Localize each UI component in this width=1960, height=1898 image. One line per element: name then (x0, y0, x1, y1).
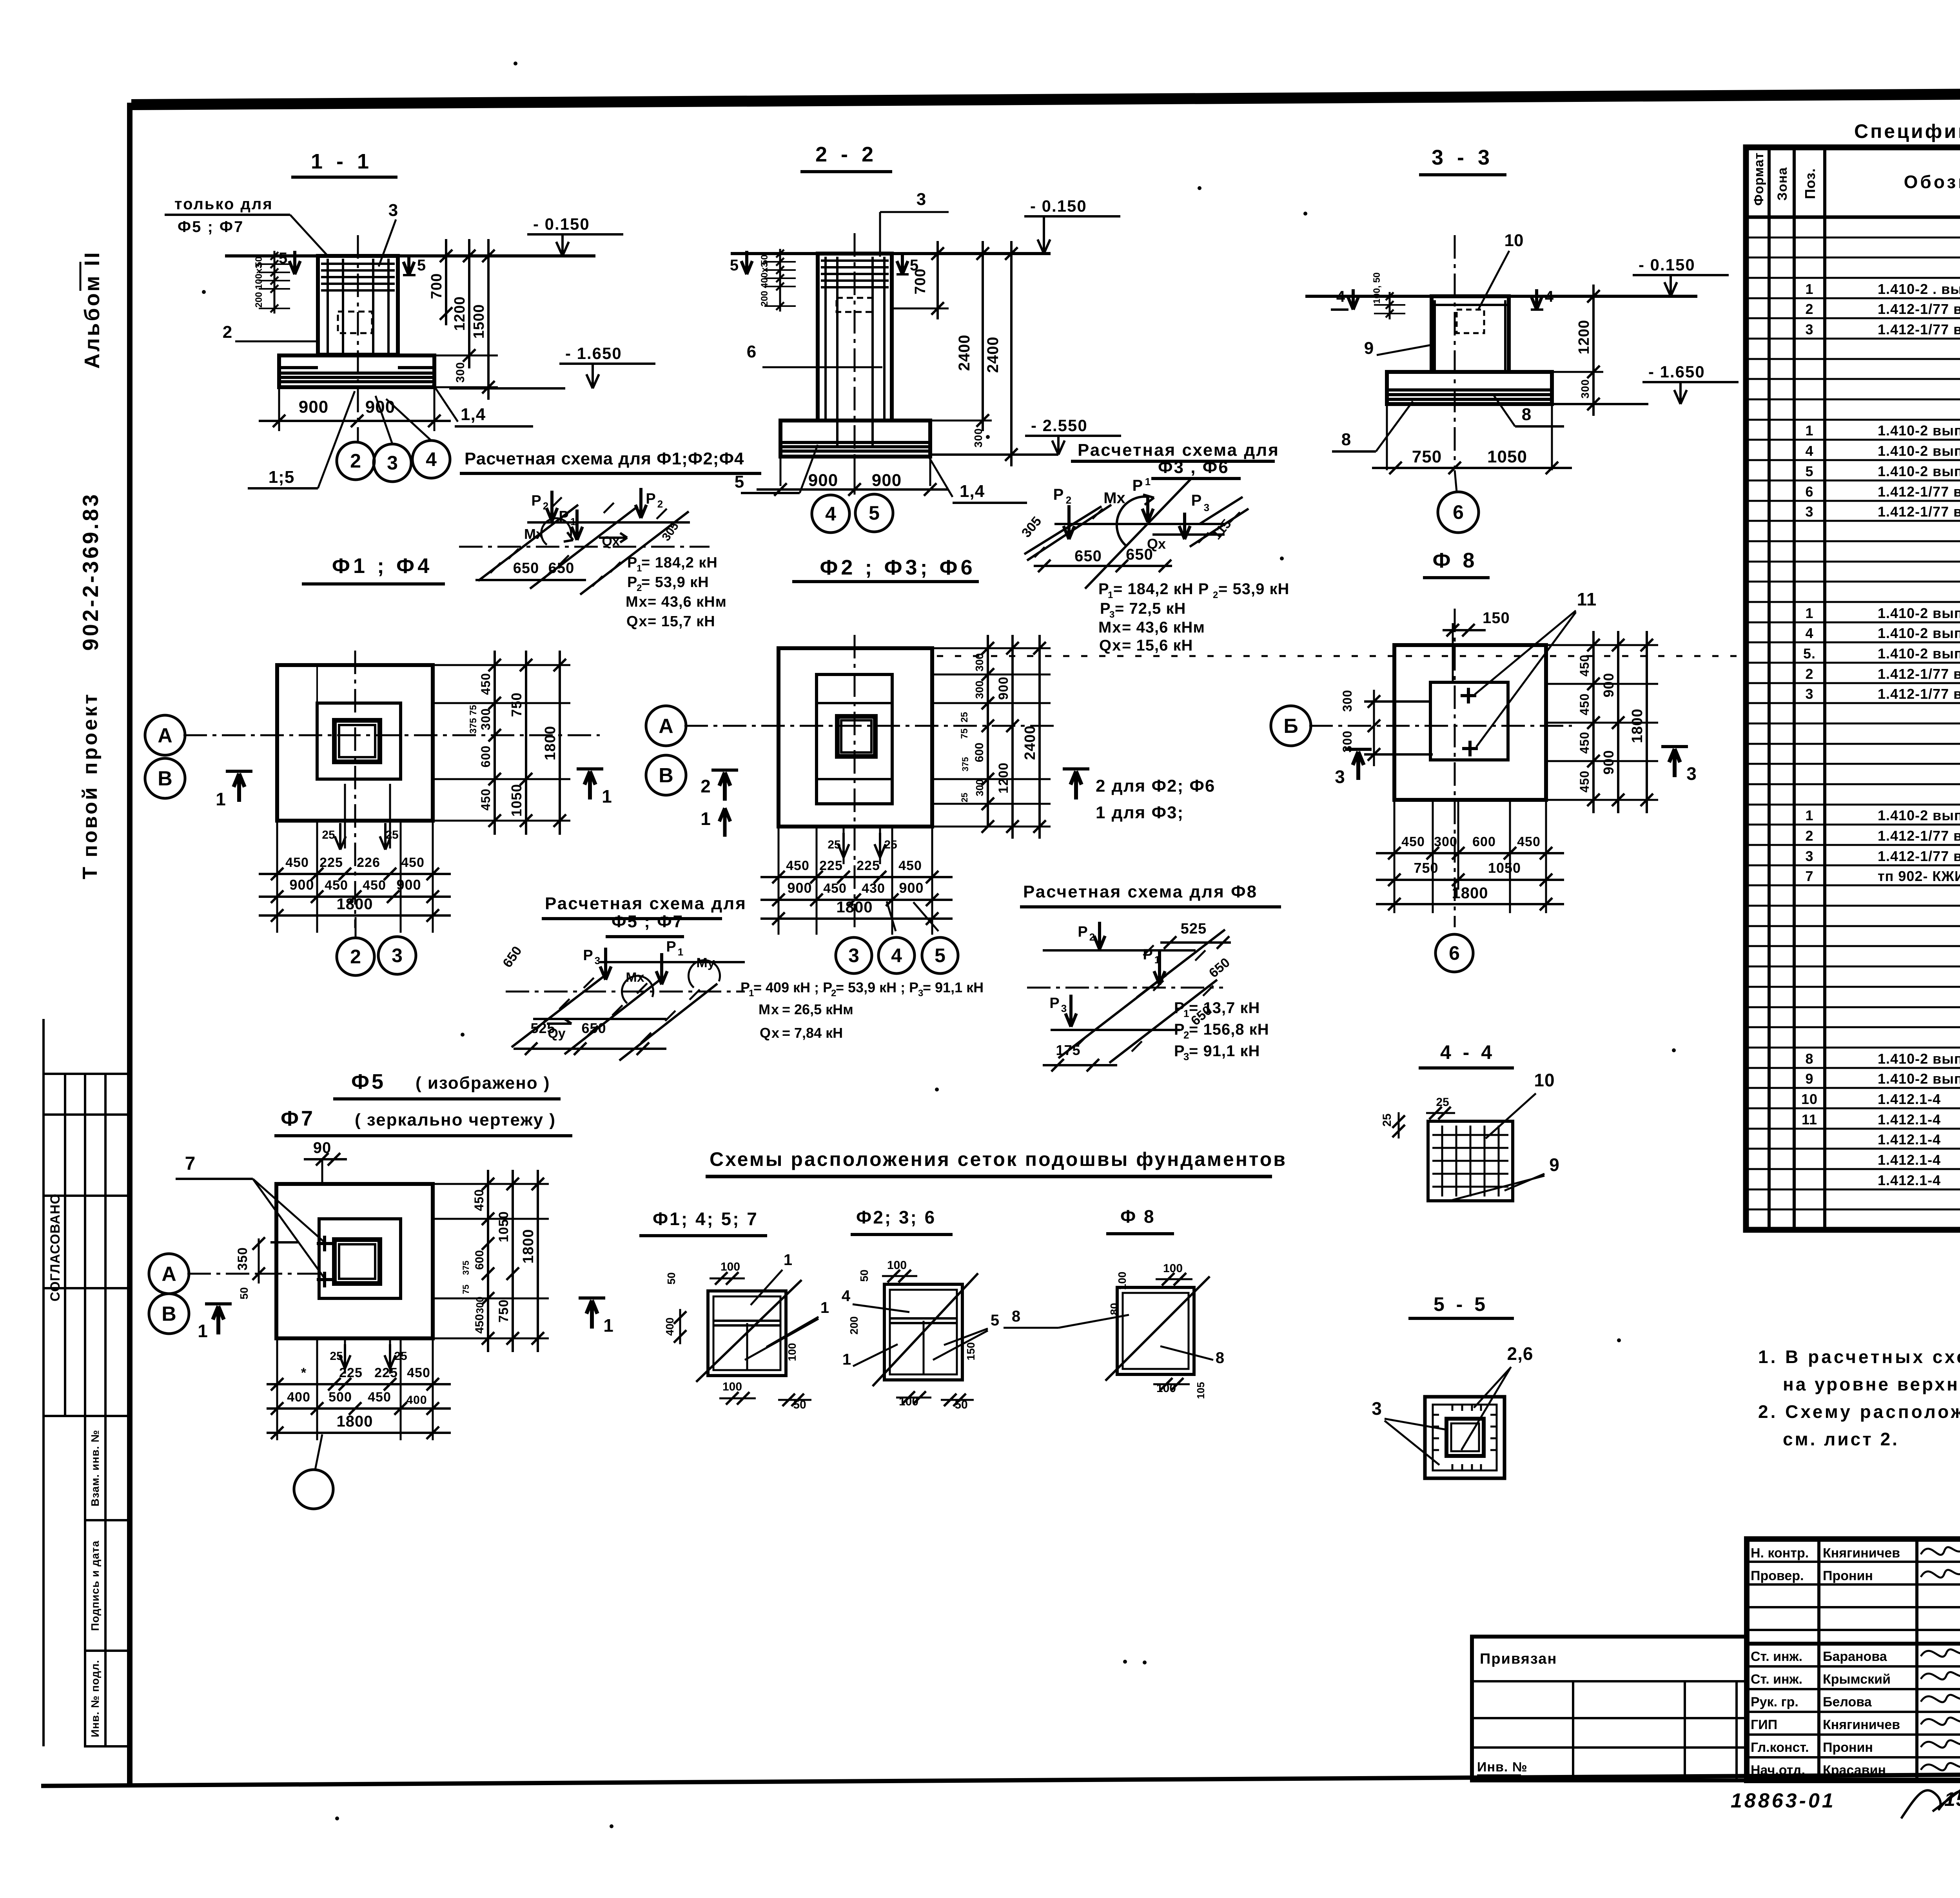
svg-text:225: 225 (374, 1365, 398, 1380)
svg-text:Р: Р (646, 491, 655, 507)
section 1-1 ref circles 2 3 4 (337, 442, 374, 480)
section 2-2 footing rebar band (782, 441, 929, 444)
svg-text:9: 9 (1364, 339, 1374, 358)
svg-text:25: 25 (322, 828, 335, 841)
svg-text:- 1.650: - 1.650 (1648, 363, 1705, 381)
svg-text:400х3: 400х3 (759, 262, 770, 288)
svg-text:525: 525 (1181, 921, 1207, 937)
svg-text:18863-01: 18863-01 (1731, 1789, 1836, 1812)
svg-text:10: 10 (1534, 1070, 1555, 1090)
svg-text:650: 650 (581, 1020, 606, 1036)
section 1-1 anchor dashed box (338, 312, 372, 333)
svg-text:2: 2 (701, 776, 711, 796)
plan F8 anchor crosses (1467, 688, 1470, 703)
svg-text:Р: Р (1191, 492, 1202, 509)
title block left row lines lower (1747, 1665, 1960, 1668)
svg-text:Расчетная схема для: Расчетная схема для (1078, 441, 1279, 460)
mesh scheme F1 4 5 7 square (708, 1291, 786, 1376)
svg-text:1.412.1-4: 1.412.1-4 (1878, 1111, 1941, 1128)
plan F2 F3 F6 bottom dim chain 3 (760, 917, 953, 920)
section 1-1 right dim chain 700 (445, 239, 447, 325)
svg-text:3: 3 (1805, 686, 1813, 702)
svg-text:1 для Ф3;: 1 для Ф3; (1096, 803, 1184, 822)
svg-text:1.412-1/77 вып.3: 1.412-1/77 вып.3 (1878, 848, 1960, 864)
section 3-3 ref circle 6 (1438, 492, 1479, 533)
section 2-2 right dim chain 2400 b (1010, 241, 1013, 466)
svg-text:- 0.150: - 0.150 (533, 215, 590, 233)
svg-text:300: 300 (973, 653, 985, 672)
svg-text:Белова: Белова (1823, 1695, 1872, 1709)
svg-text:11: 11 (1577, 589, 1597, 609)
privyazan block rows (1472, 1680, 1747, 1682)
calc scheme 1 axon lines (527, 521, 690, 524)
plan F2 F3 F6 vertical centre line (854, 635, 856, 930)
svg-text:3: 3 (595, 955, 600, 966)
svg-text:Ф2 ; Ф3; Ф6: Ф2 ; Ф3; Ф6 (820, 556, 975, 579)
svg-text:ГИП: ГИП (1751, 1717, 1777, 1732)
svg-text:175: 175 (1056, 1042, 1080, 1058)
svg-text:450: 450 (368, 1390, 391, 1405)
svg-text:525: 525 (530, 1020, 555, 1036)
svg-text:Мх: Мх (759, 1001, 780, 1017)
svg-text:450: 450 (823, 881, 847, 896)
svg-text:Гл.конст.: Гл.конст. (1751, 1740, 1809, 1755)
calc scheme 3 axon lines (600, 961, 745, 963)
svg-text:Ф5 ; Ф7: Ф5 ; Ф7 (178, 218, 244, 236)
svg-text:4: 4 (891, 944, 902, 966)
svg-text:Ф1; 4; 5; 7: Ф1; 4; 5; 7 (653, 1209, 759, 1229)
svg-text:902-2-369.83: 902-2-369.83 (78, 492, 103, 651)
svg-text:2: 2 (350, 450, 361, 472)
axis circle B3 (1271, 706, 1311, 746)
svg-text:105: 105 (1195, 1382, 1207, 1399)
svg-text:5: 5 (991, 1312, 999, 1329)
svg-text:8: 8 (1805, 1051, 1813, 1067)
svg-text:3: 3 (392, 944, 403, 966)
svg-text:А: А (162, 1263, 176, 1285)
svg-text:1: 1 (1805, 281, 1813, 297)
plan F8 extension lines bottom (1394, 800, 1396, 913)
plan F5 F7 bottom small 25 dims (344, 1338, 346, 1374)
section 1-1 column outline (318, 256, 398, 355)
section 2-2 centre line (854, 233, 856, 493)
plan F5 F7 axis line (187, 1273, 282, 1275)
specification table header row line (1746, 216, 1960, 219)
svg-text:= 91,1 кН: = 91,1 кН (1189, 1042, 1260, 1060)
plan F2 F3 F6 bottom dim chain 1 (760, 876, 953, 878)
svg-text:100: 100 (1116, 1272, 1128, 1290)
svg-text:1.412.1-4: 1.412.1-4 (1878, 1091, 1941, 1107)
svg-text:225: 225 (857, 858, 880, 873)
plan F1 F4 bottom small 25 dims (344, 784, 346, 848)
section 2-2 footing outline (780, 421, 930, 457)
calc scheme 2 axon lines (1054, 523, 1225, 525)
page border top (131, 91, 1960, 105)
detail 4-4 outer square (1428, 1121, 1513, 1201)
svg-text:1.410-2 вып. 1: 1.410-2 вып. 1 (1878, 1071, 1960, 1087)
svg-text:на уровне верхнего обреза: на уровне верхнего обреза фундаментов. (1783, 1374, 1960, 1394)
title block left row lines upper (1747, 1561, 1960, 1563)
plan F8 bottom dim chain 1 (1376, 852, 1564, 854)
svg-text:1.410-2 вып.1: 1.410-2 вып.1 (1878, 807, 1960, 823)
privyazan block columns (1572, 1681, 1574, 1780)
svg-text:Qх: Qх (602, 534, 619, 549)
svg-text:25: 25 (828, 838, 840, 851)
svg-text:= 184,2 кН Р: = 184,2 кН Р (1113, 580, 1209, 598)
svg-text:450: 450 (325, 878, 348, 893)
svg-text:1: 1 (784, 1251, 792, 1269)
calc scheme 4 load arrows (1098, 922, 1101, 949)
svg-text:Мх: Мх (524, 526, 544, 542)
svg-text:Б: Б (1283, 715, 1298, 738)
section 2-2 right dim chain 700 (936, 241, 939, 319)
svg-text:900: 900 (996, 676, 1011, 700)
section 3-3 footing rebar band (1388, 388, 1550, 392)
svg-text:Qх: Qх (1099, 637, 1122, 654)
svg-text:Н. контр.: Н. контр. (1751, 1546, 1809, 1561)
svg-text:Взам. инв. №: Взам. инв. № (89, 1430, 101, 1506)
svg-text:= 156,8 кН: = 156,8 кН (1189, 1021, 1269, 1038)
svg-text:= 43,6 кНм: = 43,6 кНм (1122, 619, 1205, 636)
svg-text:450: 450 (1577, 693, 1592, 715)
svg-text:600: 600 (473, 1250, 486, 1270)
plan F1 F4 outer square (277, 665, 433, 821)
svg-text:900: 900 (1601, 750, 1617, 774)
privyazan block frame (1472, 1637, 1747, 1780)
svg-text:750: 750 (1414, 860, 1438, 876)
left margin lower stamp boxes (85, 1416, 130, 1746)
svg-text:Т повой: Т повой (79, 785, 102, 879)
plan F1 F4 extension lines right (433, 664, 570, 666)
svg-text:25: 25 (385, 828, 398, 841)
svg-text:только для: только для (174, 196, 273, 213)
svg-text:Спецификация монолитных: Спецификация монолитных фундаментов. (1854, 120, 1960, 142)
svg-text:1;5: 1;5 (269, 468, 295, 487)
section 3-3 right dim chain 1200 300 (1592, 285, 1595, 416)
svg-text:1.410-2 вып.1: 1.410-2 вып.1 (1878, 625, 1960, 641)
svg-text:= 43,6 кНм: = 43,6 кНм (648, 594, 727, 610)
plan F5 F7 inner square (319, 1219, 401, 1298)
section 1-1 column rebar verticals (327, 259, 329, 354)
svg-text:4: 4 (1805, 443, 1813, 459)
svg-text:1050: 1050 (508, 784, 524, 817)
plan F5 F7 section marks 1 (205, 1302, 232, 1305)
svg-text:650: 650 (548, 560, 574, 576)
section 1-1 extension lines (398, 355, 498, 357)
svg-text:1,4: 1,4 (960, 482, 985, 501)
svg-text:1200: 1200 (1576, 320, 1592, 355)
svg-text:2: 2 (350, 946, 361, 968)
detail 4-4 grid horizontals (1432, 1134, 1508, 1136)
svg-text:Р: Р (1053, 486, 1064, 503)
plan F2 F3 F6 axis line (684, 725, 1058, 727)
svg-text:Мх: Мх (626, 594, 648, 610)
svg-text:3: 3 (1686, 763, 1697, 784)
svg-text:450: 450 (407, 1365, 430, 1380)
svg-text:= 72,5 кН: = 72,5 кН (1115, 600, 1186, 617)
svg-text:25: 25 (960, 793, 969, 802)
svg-text:750: 750 (508, 692, 524, 717)
svg-text:4 - 4: 4 - 4 (1440, 1041, 1495, 1063)
svg-text:100: 100 (786, 1343, 798, 1361)
svg-text:900: 900 (299, 397, 328, 417)
svg-text:3: 3 (1204, 502, 1209, 513)
svg-text:450: 450 (479, 673, 493, 695)
svg-text:2400: 2400 (956, 335, 973, 371)
svg-text:7: 7 (1805, 868, 1813, 884)
svg-text:- 1.650: - 1.650 (565, 344, 622, 363)
svg-text:( зеркально чертежу ): ( зеркально чертежу ) (355, 1110, 556, 1129)
svg-text:75: 75 (959, 729, 970, 739)
detail 5-5 inner frame (1433, 1405, 1497, 1470)
svg-text:700: 700 (428, 273, 445, 299)
calc scheme 2 dim diagonals (1027, 505, 1111, 560)
svg-text:3: 3 (1335, 767, 1345, 787)
svg-text:450: 450 (473, 1314, 486, 1334)
svg-text:2: 2 (223, 323, 232, 342)
plan F2 F3 F6 extension lines bottom (778, 827, 780, 935)
plan F8 section marks 3 (1345, 748, 1372, 751)
svg-text:350: 350 (235, 1247, 250, 1271)
svg-text:4: 4 (1805, 625, 1813, 641)
svg-text:5: 5 (935, 944, 946, 966)
svg-text:600: 600 (1472, 834, 1496, 849)
svg-text:1.410-2 вып.1: 1.410-2 вып.1 (1878, 605, 1960, 621)
svg-text:= 7,84 кН: = 7,84 кН (782, 1025, 843, 1041)
svg-text:Р: Р (1132, 477, 1143, 494)
svg-text:Ф5: Ф5 (351, 1070, 386, 1093)
svg-text:300: 300 (972, 428, 984, 448)
axis circle A2 (646, 706, 686, 746)
svg-text:400: 400 (664, 1318, 676, 1336)
svg-text:Р: Р (666, 939, 676, 955)
svg-text:Княгиничев: Княгиничев (1823, 1546, 1900, 1561)
svg-text:2: 2 (543, 500, 548, 512)
plan F2 F3 F6 right note (1063, 767, 1089, 770)
section 2-2 mesh horizontals (821, 259, 889, 262)
svg-text:25: 25 (1381, 1113, 1394, 1126)
svg-text:А: А (659, 715, 673, 738)
svg-text:450: 450 (1577, 732, 1592, 754)
svg-text:400: 400 (406, 1394, 427, 1407)
svg-text:450: 450 (786, 858, 809, 873)
section 2-2 ref circles 4 5 (812, 495, 849, 533)
plan F2 F3 F6 inner rect (817, 674, 892, 804)
svg-text:5: 5 (735, 472, 744, 491)
svg-text:375: 375 (960, 757, 970, 772)
section 2-2 left micro dims (779, 249, 781, 312)
plan F1 F4 extension lines bottom (276, 821, 278, 933)
svg-text:450: 450 (285, 855, 309, 870)
svg-text:Красавин: Красавин (1823, 1763, 1886, 1778)
svg-text:3: 3 (1061, 1002, 1067, 1014)
svg-text:Княгиничев: Княгиничев (1823, 1717, 1900, 1732)
svg-text:1200: 1200 (996, 762, 1011, 794)
scan speckles (514, 62, 517, 65)
section 1-1 right dim chain 1500 (487, 239, 490, 400)
svg-text:6: 6 (1449, 942, 1460, 964)
svg-text:1.412-1/77 вып.3: 1.412-1/77 вып.3 (1878, 828, 1960, 844)
svg-text:1800: 1800 (520, 1229, 537, 1264)
svg-text:Нач.отд.: Нач.отд. (1751, 1763, 1805, 1778)
svg-text:2: 2 (1805, 666, 1813, 682)
svg-text:Альбом II: Альбом II (80, 250, 104, 369)
svg-text:Привязан: Привязан (1480, 1651, 1557, 1667)
specification table row lines (1746, 237, 1960, 239)
svg-text:В: В (158, 767, 172, 790)
svg-text:1.412-1/77 вып. 3: 1.412-1/77 вып. 3 (1878, 301, 1960, 317)
svg-text:1.410-2 вып.1: 1.410-2 вып.1 (1878, 443, 1960, 459)
svg-text:450: 450 (363, 878, 386, 893)
svg-text:Схемы расположения сеток по: Схемы расположения сеток подошвы фундаме… (710, 1148, 1287, 1170)
section 2-2 extension lines (892, 308, 949, 310)
axis circle B2 (646, 755, 686, 795)
section 1-1 ground line (225, 254, 595, 257)
svg-text:900: 900 (899, 880, 924, 896)
title block divider row (1747, 1642, 1960, 1646)
plan F5 F7 bottom dim chain 2 (267, 1407, 451, 1410)
svg-text:Пронин: Пронин (1823, 1568, 1873, 1583)
svg-text:100, 50: 100, 50 (1372, 272, 1382, 304)
plan F1 F4 bottom dim chain 2 (259, 896, 451, 898)
plan F1 F4 vertical centre line (354, 651, 356, 928)
svg-text:4: 4 (426, 448, 437, 470)
svg-text:Формат: Формат (1751, 152, 1766, 206)
plan F8 outer square (1394, 645, 1546, 800)
svg-text:5: 5 (910, 257, 918, 274)
svg-text:200: 200 (759, 291, 770, 306)
svg-text:900: 900 (808, 471, 838, 490)
axis circle A (145, 715, 185, 755)
svg-text:5: 5 (1805, 463, 1813, 479)
section 2-2 bottom dim 900 900 (757, 488, 949, 491)
svg-text:650: 650 (1074, 547, 1102, 565)
svg-text:1.410-2 вып. 1: 1.410-2 вып. 1 (1878, 1051, 1960, 1067)
svg-text:1: 1 (603, 1315, 613, 1336)
section 2-2 anchor dashed box (837, 298, 873, 312)
plan F5 F7 extension lines bottom (276, 1338, 278, 1440)
svg-text:10: 10 (1504, 231, 1524, 250)
svg-text:1: 1 (820, 1299, 829, 1316)
svg-text:1: 1 (1805, 422, 1813, 439)
svg-text:Р: Р (531, 493, 541, 509)
svg-text:430: 430 (862, 881, 885, 896)
svg-text:1.410-2 вып.1: 1.410-2 вып.1 (1878, 463, 1960, 479)
svg-text:2: 2 (1089, 931, 1095, 943)
svg-text:Мх: Мх (1103, 489, 1125, 507)
plan F1 F4 middle square (317, 703, 401, 779)
svg-text:Крымский: Крымский (1823, 1672, 1891, 1687)
svg-text:Мх: Мх (626, 970, 644, 985)
svg-text:500: 500 (328, 1390, 352, 1405)
svg-text:А: А (158, 724, 172, 747)
svg-text:1800: 1800 (337, 896, 373, 913)
svg-text:Ф 8: Ф 8 (1120, 1206, 1156, 1227)
plan F1 F4 ref circles 2 3 (337, 938, 374, 975)
svg-text:50: 50 (858, 1269, 870, 1282)
svg-text:8: 8 (1216, 1349, 1224, 1367)
section 3-3 ground line (1305, 295, 1432, 298)
plan F5 F7 outer square (276, 1184, 433, 1338)
svg-text:2400: 2400 (984, 337, 1002, 373)
section 3-3 left micro dims (1389, 292, 1391, 319)
svg-text:*: * (301, 1365, 307, 1380)
section 3-3 column outline (1432, 296, 1509, 372)
section 2-2 right dim chain 2400 a (982, 241, 984, 431)
svg-text:1800: 1800 (1629, 709, 1646, 743)
plan F1 F4 column square (334, 720, 380, 762)
plan F2 F3 F6 bottom small 25 dims (843, 827, 845, 864)
svg-text:Рук. гр.: Рук. гр. (1751, 1695, 1798, 1709)
svg-text:25: 25 (394, 1350, 407, 1363)
svg-text:= 53,9 кН: = 53,9 кН (641, 574, 709, 591)
svg-text:200: 200 (254, 292, 264, 308)
plan F5 F7 anchor crosses (323, 1236, 326, 1251)
svg-text:Ф 8: Ф 8 (1432, 549, 1477, 572)
svg-text:Баранова: Баранова (1823, 1649, 1887, 1664)
svg-text:9: 9 (1805, 1071, 1813, 1087)
svg-text:( изображено ): ( изображено ) (416, 1073, 550, 1093)
svg-text:1800: 1800 (837, 899, 873, 916)
plan F1 F4 bottom dim chain 3 (259, 914, 451, 917)
svg-text:900: 900 (1601, 673, 1617, 697)
svg-text:1.412.1-4: 1.412.1-4 (1878, 1152, 1941, 1168)
svg-text:225: 225 (339, 1365, 363, 1380)
svg-text:1.412.1-4: 1.412.1-4 (1878, 1172, 1941, 1188)
svg-text:1: 1 (678, 946, 683, 958)
page border left (127, 103, 132, 1786)
svg-text:= 26,5 кНм: = 26,5 кНм (782, 1001, 853, 1017)
detail 5-5 anchor ticks (1452, 1405, 1454, 1411)
plan F8 inner square (1430, 682, 1508, 760)
svg-text:Р: Р (1078, 924, 1087, 940)
svg-text:300: 300 (479, 708, 493, 730)
footer signature squiggle (1901, 1790, 1960, 1818)
svg-text:см. лист 2.: см. лист 2. (1783, 1429, 1899, 1449)
title block outer frame (1747, 1539, 1960, 1780)
section 1-1 bottom dim 900 900 (259, 420, 451, 422)
svg-text:4: 4 (1336, 288, 1345, 305)
svg-text:Инв. №: Инв. № (1477, 1760, 1528, 1775)
svg-text:Провер.: Провер. (1751, 1568, 1804, 1583)
svg-text:1: 1 (602, 786, 612, 807)
section 2-2 column rebar verticals (824, 257, 827, 419)
calc scheme 1 load arrows (550, 491, 554, 521)
svg-text:300: 300 (454, 362, 467, 383)
svg-text:1: 1 (1145, 476, 1151, 488)
svg-text:1800: 1800 (1452, 885, 1488, 902)
svg-text:600: 600 (973, 743, 986, 762)
svg-text:1.412.1-4: 1.412.1-4 (1878, 1131, 1941, 1148)
svg-text:650: 650 (513, 560, 539, 576)
svg-text:5.: 5. (1803, 645, 1816, 662)
svg-text:1.412-1/77 вып.3: 1.412-1/77 вып.3 (1878, 686, 1960, 702)
svg-text:600: 600 (479, 745, 493, 767)
svg-text:Подпись и дата: Подпись и дата (89, 1541, 101, 1631)
svg-text:тп 902- КЖИ -: тп 902- КЖИ - А1 (1878, 868, 1960, 884)
mesh scheme F8 square (1117, 1287, 1194, 1374)
svg-text:Ф5 ; Ф7: Ф5 ; Ф7 (612, 912, 684, 931)
svg-text:8: 8 (1341, 430, 1351, 449)
svg-text:25: 25 (884, 838, 897, 851)
svg-text:Мх: Мх (1098, 619, 1122, 636)
svg-text:= 15,6 кН: = 15,6 кН (1122, 637, 1193, 654)
svg-text:300: 300 (474, 1296, 486, 1313)
section 3-3 anchor dashed box (1457, 310, 1484, 333)
section 1-1 centre line (357, 235, 359, 442)
plan F2 F3 F6 inner horizontals (817, 702, 892, 704)
section 2-2 ground line (731, 252, 816, 255)
